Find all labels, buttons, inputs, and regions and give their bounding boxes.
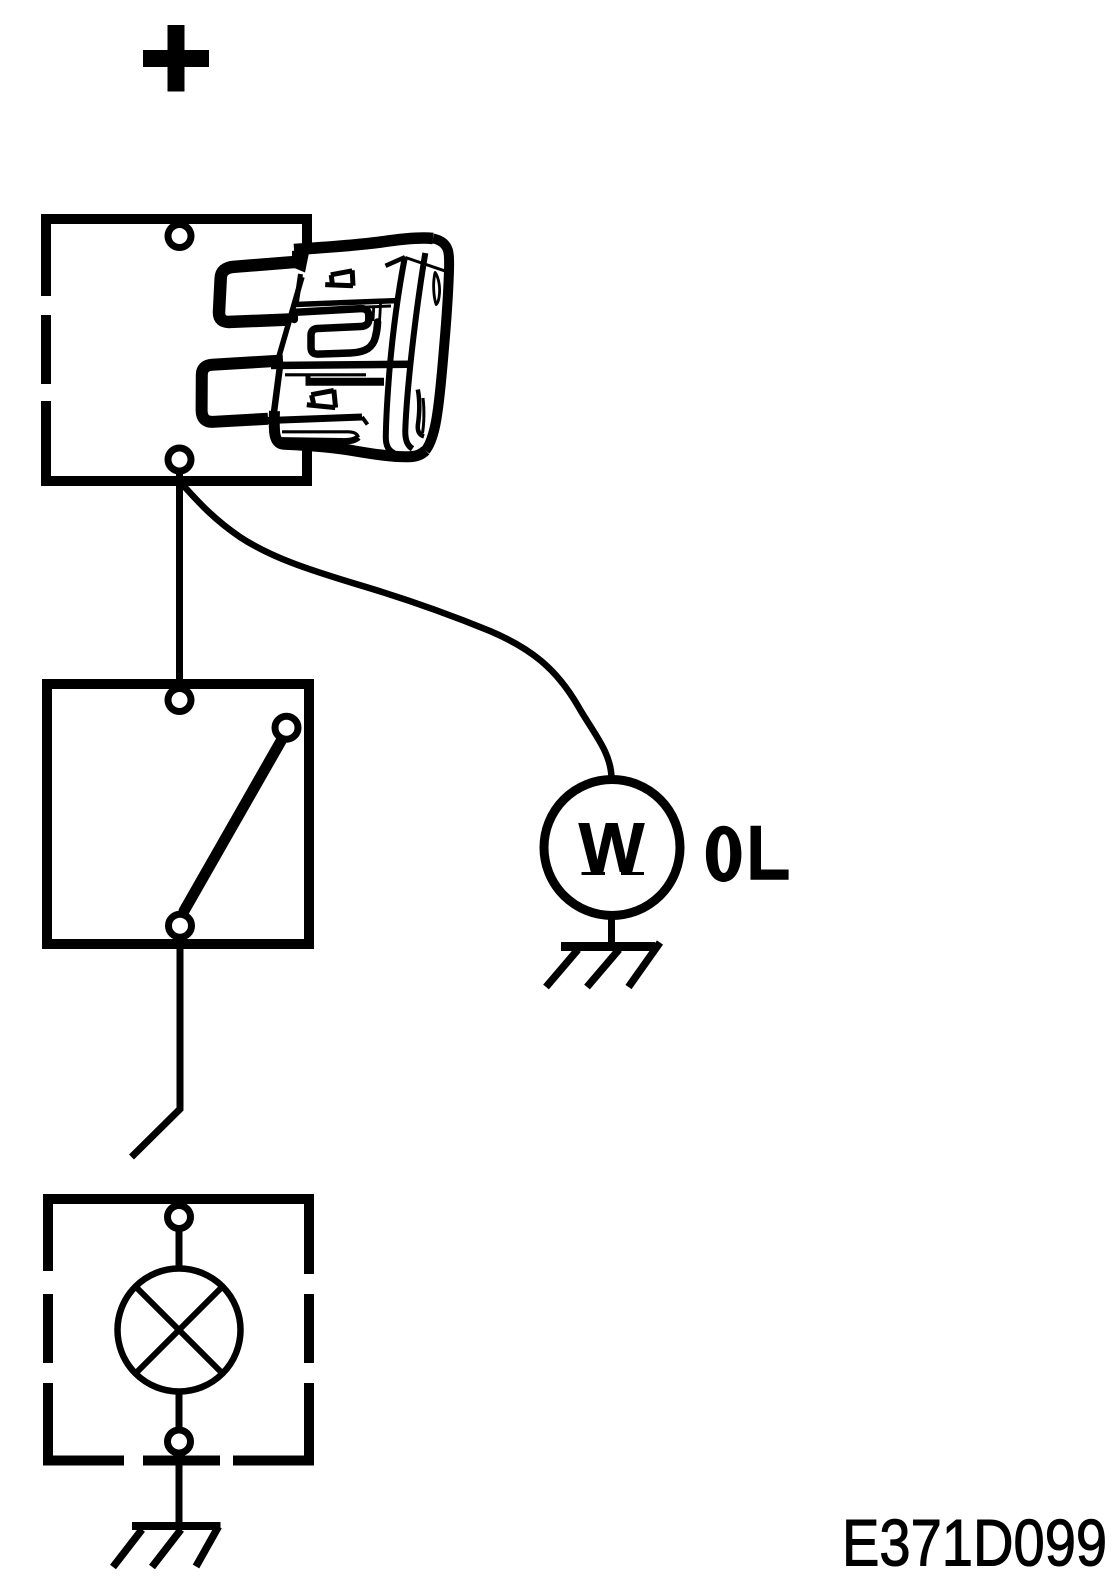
label 0L bbox=[706, 826, 789, 882]
wire lamp terminal to bulb bbox=[176, 1228, 183, 1272]
fuse amperage mark upper bbox=[325, 270, 353, 286]
fuse body top edge bbox=[294, 238, 433, 249]
svg-text:E371D099: E371D099 bbox=[842, 1506, 1107, 1576]
gauge ground symbol bbox=[546, 943, 660, 988]
fuse body right edge bbox=[426, 239, 450, 451]
wire from fuse box to switch box bbox=[176, 466, 183, 684]
gauge W underline bbox=[582, 872, 645, 875]
fuse body bottom edge bbox=[274, 411, 425, 457]
fuse body left edge diagonal bbox=[279, 277, 303, 358]
fuse side top slot bbox=[434, 273, 440, 305]
fuse F (pictorial blade fuse) bbox=[196, 236, 453, 463]
fuse bottom funnel lines bbox=[282, 432, 358, 438]
switch terminal top bbox=[168, 689, 191, 712]
fuse element S-slot bbox=[294, 309, 378, 355]
terminal top of fuse box bbox=[168, 225, 191, 248]
wire curved to gauge W bbox=[182, 484, 612, 778]
gauge W circle bbox=[544, 780, 680, 916]
fuse amperage mark lower bbox=[307, 390, 336, 408]
switch lever bbox=[184, 741, 281, 911]
fuse top-right notch bbox=[384, 245, 407, 264]
terminal bottom of fuse box bbox=[168, 448, 191, 471]
ground wire from lamp bbox=[176, 1452, 183, 1526]
fuse mid seam bbox=[271, 364, 409, 365]
fuse front-right seam bbox=[386, 257, 405, 454]
lamp terminal bottom bbox=[168, 1430, 191, 1453]
gauge ground stem bbox=[608, 915, 615, 948]
fuse blade-body junction fill bbox=[292, 248, 310, 273]
switch terminal bottom bbox=[169, 914, 192, 937]
fuse bottom cap step seam bbox=[262, 417, 362, 421]
fuse top blade terminal bbox=[219, 262, 297, 322]
wire bulb to lamp bottom terminal bbox=[176, 1389, 183, 1431]
fuse side top rim inner line bbox=[406, 258, 447, 272]
battery positive terminal + bbox=[143, 25, 209, 92]
lamp terminal top bbox=[168, 1206, 191, 1229]
switch box bbox=[47, 684, 309, 944]
lamp bulb circle with cross bbox=[118, 1269, 241, 1392]
fuse body silhouette bbox=[196, 236, 453, 463]
fuse side rim line bbox=[405, 253, 425, 449]
ground symbol bottom bbox=[113, 1526, 221, 1567]
fuse side bottom slot bbox=[418, 390, 424, 437]
fuse bottom blade terminal bbox=[202, 361, 283, 422]
switch terminal right bbox=[275, 716, 298, 739]
fuse window top seam bbox=[296, 301, 400, 305]
lamp box (dashed) bbox=[43, 1194, 314, 1465]
wire from switch down with open contact bbox=[132, 944, 181, 1157]
fuse holder box (dashed connector box) bbox=[41, 214, 312, 486]
